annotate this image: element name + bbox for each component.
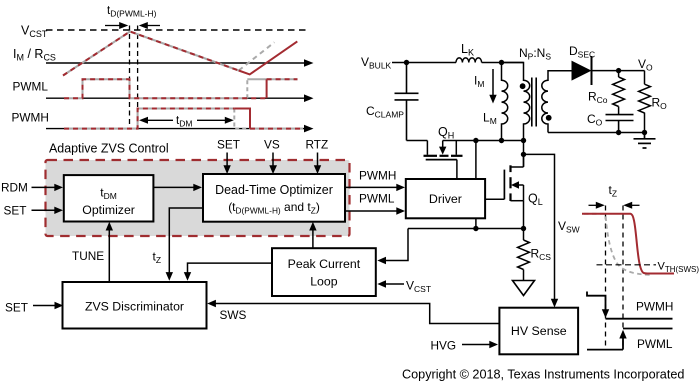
tZ dashed vertical lines: [605, 206, 607, 350]
primary phase dot: [520, 83, 526, 89]
resistor RCS: [518, 229, 530, 281]
node bus c: [521, 138, 526, 143]
block tDM Optimizer: [64, 175, 154, 221]
wire peak current loop to ZVS discriminator: [184, 263, 272, 281]
svg-text:SET: SET: [5, 301, 28, 315]
IM waveform red: [63, 32, 239, 76]
node bus a: [473, 138, 478, 143]
wire to peak current loop: [377, 229, 408, 265]
svg-text:PWML: PWML: [13, 80, 49, 94]
adaptive ZVS control dashed container: [46, 160, 350, 236]
current arrow IM: [489, 69, 496, 104]
svg-text:Peak Current: Peak Current: [288, 257, 361, 271]
resistor RO: [639, 71, 651, 133]
svg-text:TUNE: TUNE: [72, 249, 104, 263]
arrow tDM optimizer to dead-time optimizer: [153, 184, 202, 191]
svg-text:Dead-Time Optimizer: Dead-Time Optimizer: [215, 183, 333, 197]
wire driver bottom: [475, 218, 477, 228]
svg-text:HVG: HVG: [431, 339, 457, 353]
node driver bottom: [473, 226, 478, 231]
node CO bottom: [616, 130, 621, 135]
arrow SET into tDM optimizer: [32, 207, 64, 214]
arrow HVG into HV sense: [462, 341, 498, 348]
VSW waveform red: [582, 214, 674, 274]
node RCo top: [616, 68, 621, 73]
VCST dashed level line: [46, 29, 306, 31]
secondary bottom wire: [548, 132, 645, 134]
node LM top: [499, 60, 504, 65]
svg-text:Adaptive ZVS Control: Adaptive ZVS Control: [49, 142, 169, 156]
ground RCS: [513, 281, 535, 296]
axis PWML: [46, 94, 314, 102]
VSW waveform gray dashed: [584, 214, 650, 275]
svg-text:PWMH: PWMH: [636, 300, 673, 314]
svg-text:Driver: Driver: [429, 192, 462, 206]
node VSW tap: [521, 152, 526, 157]
IM waveform gray: [63, 32, 239, 76]
switch node bus wire: [443, 140, 524, 142]
block HV Sense: [499, 308, 578, 355]
secondary phase dot: [546, 115, 552, 121]
svg-text:SET: SET: [217, 138, 240, 152]
resistor RCo: [613, 71, 625, 115]
block Dead-Time Optimizer: [203, 174, 345, 222]
node QL source: [521, 226, 526, 231]
axis PWMH: [46, 125, 314, 133]
tZ dimension arrows: [589, 202, 640, 209]
node VBULK/CCLAMP: [404, 60, 409, 65]
svg-text:HV Sense: HV Sense: [511, 324, 567, 338]
svg-text:Optimizer: Optimizer: [82, 203, 135, 217]
arrow SET into dead-time optimizer: [223, 153, 230, 175]
ground output: [634, 133, 656, 149]
block ZVS Discriminator: [63, 282, 207, 329]
wire VSW branch: [524, 154, 555, 299]
wire bus to driver top: [475, 141, 477, 179]
svg-text:Loop: Loop: [310, 275, 338, 289]
svg-text:VS: VS: [264, 138, 280, 152]
svg-text:Copyright © 2018, Texas Instru: Copyright © 2018, Texas Instruments Inco…: [402, 368, 684, 382]
svg-text:PWML: PWML: [359, 192, 395, 206]
transformer primary winding: [502, 63, 530, 141]
arrow RTZ into dead-time optimizer: [314, 153, 321, 175]
transistor QH: [407, 141, 463, 179]
PWMH waveform gray: [64, 109, 234, 129]
svg-text:ZVS Discriminator: ZVS Discriminator: [85, 300, 184, 314]
dimension arrows tD: [105, 22, 160, 29]
wire PWMH to driver: [345, 184, 405, 191]
tDM dimension arrow: [139, 117, 234, 124]
wire tZ from dead-time optimizer: [166, 208, 203, 281]
capacitor CO: [606, 115, 634, 133]
block Peak Current Loop: [272, 248, 376, 296]
wire QL source bus: [408, 228, 524, 230]
arrow SET into ZVS discriminator: [33, 302, 63, 309]
svg-text:PWML: PWML: [637, 337, 673, 351]
diode DSEC: [572, 56, 592, 85]
VTH(SWS) threshold dashed line: [597, 264, 657, 266]
arrow VCST into peak current loop: [377, 280, 404, 287]
arrow VSW into HV sense: [551, 299, 558, 308]
wire switch node down: [523, 141, 525, 167]
wire SWS from HV sense to ZVS discriminator: [207, 300, 499, 324]
arrow RDM into tDM optimizer: [32, 184, 64, 191]
svg-text:PWMH: PWMH: [359, 169, 396, 183]
arrow TUNE into tDM optimizer: [106, 222, 113, 282]
node bus b: [499, 138, 504, 143]
vertical dashed timing lines: [129, 26, 131, 130]
node RO bottom: [642, 130, 647, 135]
arrow peak current loop to dead-time optimizer: [309, 222, 316, 248]
inductor LM: [502, 63, 508, 141]
PWML waveform gray: [64, 79, 247, 98]
block Driver: [406, 179, 485, 218]
capacitor CCLAMP: [395, 63, 419, 141]
PWMH waveform red: [64, 109, 234, 129]
arrow VS into dead-time optimizer: [269, 153, 277, 175]
PWMH right waveform: [587, 292, 673, 319]
inductor LK: [456, 58, 482, 63]
axis IM/RCS: [46, 59, 314, 67]
transistor QL: [485, 154, 523, 228]
svg-text:SWS: SWS: [220, 308, 247, 322]
wire diode to VO: [592, 70, 645, 72]
svg-text:SET: SET: [4, 203, 27, 217]
svg-text:RDM: RDM: [1, 181, 28, 195]
PWML waveform red: [64, 79, 267, 98]
wire LK to transformer: [482, 62, 524, 64]
transformer secondary winding: [542, 71, 572, 133]
svg-text:RTZ: RTZ: [306, 138, 329, 152]
svg-text:PWMH: PWMH: [12, 111, 49, 125]
PWML right waveform: [587, 329, 673, 350]
wire PWML to driver: [345, 207, 405, 214]
transformer core: [531, 78, 533, 127]
wire VBULK to LK: [392, 62, 456, 64]
